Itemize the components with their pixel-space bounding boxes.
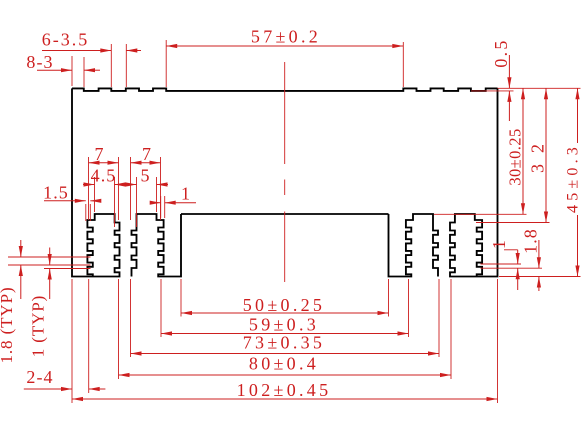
svg-text:80±0.4: 80±0.4: [249, 354, 319, 374]
right wall fin + slot1' zigzag + fin 2' (mirror): [450, 88, 498, 276]
svg-text:57±0.2: 57±0.2: [251, 27, 321, 47]
part outline: top edge with 8 bumps (8-3 / 6-3.5 pattern): [72, 88, 498, 91]
svg-text:30±0.25: 30±0.25: [506, 128, 525, 185]
svg-text:5: 5: [140, 166, 150, 186]
svg-text:1 (TYP): 1 (TYP): [29, 295, 48, 358]
svg-text:6-3.5: 6-3.5: [42, 30, 90, 50]
right side vertical dims: ext line top: [498, 87, 581, 89]
central cavity ceiling: [181, 213, 389, 215]
svg-text:1: 1: [181, 184, 191, 204]
ext line bottom level: [499, 276, 581, 278]
svg-text:102±0.45: 102±0.45: [237, 380, 332, 400]
svg-text:0.5: 0.5: [491, 38, 511, 67]
ext line neck bottom level: [476, 222, 550, 224]
centerline: [284, 62, 286, 164]
right fin 3' + slot3' zigzag + right column (mirror): [389, 214, 439, 277]
svg-text:50±0.25: 50±0.25: [243, 295, 325, 315]
svg-text:73±0.35: 73±0.35: [243, 333, 325, 353]
svg-text:59±0.3: 59±0.3: [249, 315, 319, 335]
left wall fin + slot1 zigzag + fin 2: [72, 88, 120, 276]
svg-text:8-3: 8-3: [26, 52, 53, 72]
TYP ext lines (left): [8, 256, 91, 258]
left fin 3 + slot3 zigzag + left column: [132, 214, 182, 277]
svg-text:1.8: 1.8: [521, 228, 541, 254]
svg-text:45±0.3: 45±0.3: [565, 143, 582, 213]
svg-text:1: 1: [489, 239, 509, 249]
svg-text:1.5: 1.5: [43, 183, 69, 203]
svg-text:1.8 (TYP): 1.8 (TYP): [0, 286, 16, 363]
svg-text:2-4: 2-4: [26, 367, 53, 387]
svg-text:32: 32: [528, 133, 548, 173]
ext line cavity ceiling level: [434, 213, 527, 215]
